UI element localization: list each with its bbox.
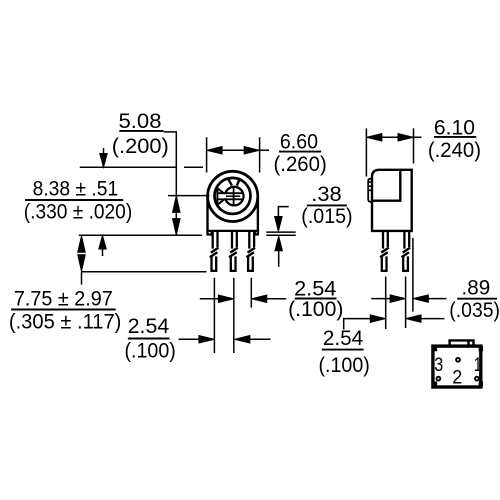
fraction line 6.10 xyxy=(434,136,476,138)
fraction line .38 xyxy=(307,204,347,206)
arrow 5.08 up xyxy=(102,249,104,256)
arrow 6.10 right xyxy=(398,134,414,142)
svg-text:(.330 ± .020): (.330 ± .020) xyxy=(24,199,132,223)
dim .38 double reference lines xyxy=(266,232,295,235)
slot upper line xyxy=(217,192,243,194)
svg-text:(.100): (.100) xyxy=(288,297,343,321)
corner notch top-left xyxy=(433,346,437,350)
hole pin 3 xyxy=(437,377,441,381)
dim 5.08 leader elbow and 8.38 dimension line xyxy=(164,132,177,236)
front pin 3 xyxy=(246,231,255,271)
side body right edge extension xyxy=(412,238,414,312)
dim row pins 2-3 right line xyxy=(259,298,286,300)
arrow 7.75 up xyxy=(78,236,86,253)
arrow 8.38 up xyxy=(173,196,181,213)
corner notch bottom-right xyxy=(479,382,483,386)
arrow .38 up xyxy=(275,236,283,251)
svg-text:2.54: 2.54 xyxy=(128,314,170,338)
reference line pin ends xyxy=(82,271,207,273)
slot middle line xyxy=(226,195,240,197)
arrow right at pin1 xyxy=(199,336,215,344)
bowtie wing erase xyxy=(217,188,228,205)
arrow 5.08 down xyxy=(103,148,105,157)
svg-text:1: 1 xyxy=(474,354,482,376)
bottom view top tab xyxy=(450,340,474,344)
slot lower line xyxy=(217,198,243,200)
reference line circle top xyxy=(80,166,203,168)
keystone notch right slant xyxy=(237,178,240,186)
svg-text:(.305 ± .117): (.305 ± .117) xyxy=(9,309,122,333)
front pin 2 xyxy=(229,231,238,271)
svg-text:3: 3 xyxy=(434,354,443,376)
arrow right at side pin2 CL xyxy=(390,295,406,303)
arrow 6.60 right xyxy=(244,147,260,155)
bowtie top slant xyxy=(217,188,227,196)
dim 6.60 extension lines xyxy=(207,137,260,172)
corner notch bottom-left xyxy=(433,382,437,386)
dim row pins 2-3 left line xyxy=(200,298,226,300)
fraction line 6.60 xyxy=(279,151,321,153)
bottom view outline xyxy=(433,346,481,387)
svg-text:8.38 ± .51: 8.38 ± .51 xyxy=(33,176,119,200)
svg-text:(.015): (.015) xyxy=(301,204,352,228)
bottom view tab divider xyxy=(467,340,469,344)
svg-text:.38: .38 xyxy=(311,182,341,206)
screw cross vertical line xyxy=(233,186,235,207)
dim side 2.54 elbow xyxy=(344,319,378,330)
left foot xyxy=(207,231,212,235)
bowtie left edge xyxy=(216,188,218,205)
fraction line 7.75 xyxy=(11,309,116,311)
arrow .38 down xyxy=(275,217,283,232)
dim side 2.54 right line xyxy=(413,318,444,320)
svg-text:(.260): (.260) xyxy=(274,152,327,176)
hole pin 1 xyxy=(475,377,479,381)
rotor outer circle xyxy=(208,171,258,221)
rotor inner circle xyxy=(215,178,251,214)
arrow right at side pin1 CL xyxy=(370,315,386,323)
svg-text:5.08: 5.08 xyxy=(119,109,162,133)
dim .89 left line xyxy=(371,298,398,300)
svg-text:(.100): (.100) xyxy=(125,338,176,362)
side pin 1 xyxy=(380,231,389,271)
arrow left at side pin2 CL xyxy=(406,315,422,323)
slot band erase xyxy=(219,194,243,198)
svg-text:(.100): (.100) xyxy=(319,353,370,377)
svg-text:7.75 ± 2.97: 7.75 ± 2.97 xyxy=(14,286,113,310)
side pin 2 xyxy=(402,231,411,271)
body left edge xyxy=(206,198,208,234)
arrow left at pin2 xyxy=(234,336,250,344)
side pin centerline 1 xyxy=(385,277,387,330)
reference line seating plane xyxy=(79,234,202,236)
side pin centerline 2 xyxy=(405,277,407,329)
dim 6.10 line xyxy=(366,136,421,138)
side view body xyxy=(368,169,412,231)
body right edge xyxy=(257,198,259,234)
bowtie bottom slant xyxy=(217,197,227,205)
front pin centerline 3 xyxy=(250,278,252,308)
rotor tab slot ticks xyxy=(368,182,371,190)
keystone notch left slant xyxy=(228,178,232,186)
fraction line 2.54 side xyxy=(322,349,364,351)
fraction line 8.38 xyxy=(25,199,123,201)
hole pin 2 xyxy=(456,358,460,362)
dim .89 right line xyxy=(420,298,446,300)
front pin centerline 1 xyxy=(213,278,215,353)
fraction line .89 xyxy=(457,298,497,300)
body bottom edge xyxy=(206,230,259,232)
front pin centerline 2 xyxy=(233,278,235,353)
reference line circle center xyxy=(168,195,210,197)
svg-text:2.54: 2.54 xyxy=(323,326,363,350)
dim row pins 1-2 right line xyxy=(242,338,271,340)
svg-text:.89: .89 xyxy=(462,275,491,299)
.38 lower stem xyxy=(278,250,280,267)
7.75 stem xyxy=(81,272,83,285)
arrow left at body edge ext xyxy=(413,295,429,303)
arrow left at pin3 xyxy=(251,295,266,303)
fraction line 5.08 xyxy=(119,130,163,132)
svg-text:2: 2 xyxy=(452,366,462,388)
dim row pins 1-2 left line xyxy=(179,338,207,340)
.38 leader elbow xyxy=(278,207,288,217)
fraction line 2.54 middle xyxy=(295,298,337,300)
front pin 1 xyxy=(210,231,219,271)
arrow 8.38 down xyxy=(173,219,181,236)
dim 6.60 line xyxy=(207,149,269,151)
dim 6.10 extension lines xyxy=(366,128,413,176)
svg-text:(.035): (.035) xyxy=(449,298,500,322)
arrow 6.10 left xyxy=(366,134,382,142)
arrow 7.75 down xyxy=(78,255,86,272)
svg-text:(.200): (.200) xyxy=(112,134,169,158)
screw head circle xyxy=(225,187,244,206)
right foot xyxy=(255,231,259,235)
svg-text:(.240): (.240) xyxy=(428,138,481,162)
front view body of trimmer potentiometer xyxy=(206,198,259,235)
fraction line 2.54 lower left xyxy=(128,338,170,340)
arrow right at pin2 xyxy=(218,295,234,303)
svg-text:6.60: 6.60 xyxy=(280,130,318,154)
arrow 6.60 left xyxy=(207,147,223,155)
side view rotor tab xyxy=(368,179,372,202)
corner notch top-right xyxy=(479,346,483,350)
side view step inner line xyxy=(372,169,401,200)
